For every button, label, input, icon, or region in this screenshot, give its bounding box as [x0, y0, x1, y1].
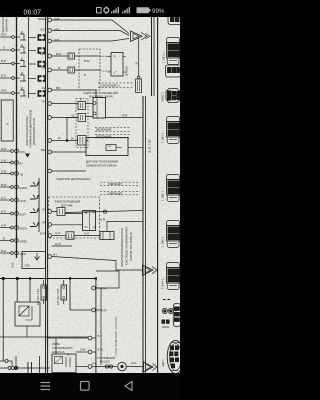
wire color labels top-left: [1, 33, 7, 93]
page border vertical: [157, 17, 159, 373]
svg-text:MREL: MREL: [38, 17, 46, 21]
driver hook symbols: [30, 181, 39, 227]
wire W-B from sensor to ECU border: [106, 117, 144, 119]
connector C7 pin pair: [162, 300, 173, 328]
ECU pin circle FP: [48, 68, 52, 72]
svg-text:W-B: W-B: [54, 27, 60, 31]
fuse EFI no.2: [61, 280, 67, 304]
wire row B-O EGR: [0, 212, 18, 216]
wire NE-: [52, 151, 86, 153]
ECU pin circle MREL: [48, 18, 52, 22]
svg-text:⊗ 2C TB2: ⊗ 2C TB2: [148, 139, 152, 153]
svg-text:ELR: ELR: [1, 33, 6, 37]
svg-text:FP: FP: [42, 66, 46, 70]
svg-text:EVP: EVP: [40, 231, 46, 235]
dashed option box: [79, 49, 100, 90]
connector view C6: [167, 263, 180, 290]
wire stubs bus to blobs: [29, 38, 37, 94]
off-page arrow 1: [131, 31, 151, 42]
svg-text:G-R: G-R: [100, 217, 105, 221]
wire W-B row 2: [52, 31, 129, 36]
terminal T5: [20, 87, 26, 96]
connector view C4: [167, 175, 180, 202]
connector view C7 oval: [173, 304, 180, 327]
connector view C2b octagon: [166, 89, 180, 103]
inline connector blobs x36-46 top group: [38, 34, 46, 97]
ECU pin circle NE-: [48, 150, 52, 154]
resistor box THEO: [108, 53, 127, 77]
wire B row: [52, 69, 68, 71]
svg-text:D-R: D-R: [102, 308, 107, 312]
svg-text:+B: +B: [20, 173, 24, 177]
connector blob 4: [38, 75, 46, 82]
wire W-B row 3: [52, 39, 129, 42]
ECU right border line B (upper section): [153, 17, 155, 96]
svg-text:ТОПЛИВНЫЙ НАСОС: ТОПЛИВНЫЙ НАСОС: [114, 316, 118, 355]
svg-text:ЭЛЕКТРОПНЕВМОКЛАПАН: ЭЛЕКТРОПНЕВМОКЛАПАН: [120, 228, 124, 267]
wire row O: [0, 49, 20, 52]
wire: left bus vertical: [16, 17, 18, 258]
scanned diagram paper: [0, 17, 180, 374]
solenoid valve box: [100, 232, 114, 240]
svg-text:OX: OX: [42, 207, 46, 211]
signal bars 2: [122, 12, 123, 14]
svg-text:G-B: G-B: [1, 158, 6, 162]
wire shield to sensor pins: [67, 104, 93, 141]
off-page arrow 2: [143, 265, 158, 276]
wire G-W row: [52, 245, 72, 247]
svg-text:НАСОСА: НАСОСА: [52, 350, 65, 354]
FPU down-arrow symbol: [25, 154, 30, 158]
svg-text:S-W: S-W: [80, 348, 86, 352]
svg-text:B: B: [58, 66, 60, 70]
fuel pump relay box: [52, 354, 76, 373]
svg-text:BR: BR: [56, 86, 60, 90]
svg-text:КОЛЕНЧАТОГО ВАЛА: КОЛЕНЧАТОГО ВАЛА: [86, 163, 117, 167]
svg-text:B-R: B-R: [92, 362, 97, 366]
wire relay top feed: [47, 337, 88, 339]
wire G-O left: [52, 235, 66, 237]
wire color labels mid-left: [1, 147, 7, 253]
wire G2 to shield box: [52, 103, 78, 105]
svg-text:G2: G2: [42, 99, 46, 103]
ECU pin circle E1: [48, 88, 52, 92]
svg-text:E1: E1: [42, 86, 46, 90]
ECU pin circle HT: [48, 223, 52, 227]
ECU pin circle KNK: [48, 169, 52, 173]
wire S-W: [76, 351, 88, 353]
ECU right border line A: [142, 96, 144, 373]
bottom-left stub wires: [0, 356, 50, 373]
nested elbow wires: [96, 271, 119, 365]
svg-text:B: B: [84, 73, 86, 77]
svg-text:[ЗЕЛЕНЫЙ]: [ЗЕЛЕНЫЙ]: [96, 128, 112, 132]
STA starter box: [22, 252, 46, 269]
ECU pin circle OX: [48, 210, 52, 214]
wire row G-B +B: [0, 172, 18, 176]
vertical from rail left 2: [16, 280, 18, 302]
svg-text:G3W: G3W: [20, 252, 27, 256]
knock sensor symbol: [103, 210, 106, 213]
connector circle B-B: [88, 365, 92, 369]
wire row B-W EGR4: [0, 185, 18, 189]
svg-text:W-B: W-B: [54, 38, 60, 42]
wire: main center bus line A: [45, 17, 47, 373]
svg-text:W: W: [67, 352, 70, 356]
back button: [125, 382, 132, 391]
svg-text:G: G: [80, 98, 82, 102]
vertical to fuse2 branch: [70, 280, 92, 310]
svg-text:B-O: B-O: [1, 249, 7, 253]
svg-text:B-R: B-R: [1, 59, 6, 63]
wire row B-W FPU: [0, 149, 18, 153]
home button: [81, 382, 90, 391]
svg-text:G-B: G-B: [1, 169, 6, 173]
svg-text:G-O: G-O: [84, 231, 90, 235]
connector circle B-Y: [88, 336, 92, 340]
connector circle D-R 1: [92, 286, 96, 290]
svg-text:НАСОС: НАСОС: [100, 360, 110, 364]
svg-text:MREL: MREL: [20, 240, 28, 244]
wire: inner vertical rail top: [28, 17, 30, 98]
wire W-B row 1: [52, 20, 129, 34]
ECU pin circle G2: [48, 102, 52, 106]
connector blob 2: [38, 47, 46, 54]
shield box B: [57, 208, 65, 216]
svg-text:G-R: G-R: [1, 223, 6, 227]
off-page arrow 3: [144, 362, 158, 372]
svg-text:ДАТЧИК: ДАТЧИК: [61, 203, 73, 207]
connector circle S-W: [88, 350, 92, 354]
svg-text:СИСТЕМЫ УЛАВЛИВАНИЯ: СИСТЕМЫ УЛАВЛИВАНИЯ: [125, 227, 129, 265]
svg-text:EFI №2 7,5A: EFI №2 7,5A: [56, 289, 60, 305]
ECU right border line A (upper section): [151, 17, 153, 96]
fuse EFI no.1: [41, 280, 47, 304]
wire OX to heater element: [52, 212, 83, 214]
wire W2 to crank box: [86, 140, 88, 142]
shield terminal box W2: [78, 136, 87, 146]
ECU pin circle STA: [48, 255, 52, 259]
svg-text:W: W: [72, 114, 75, 118]
ECU pin circle SDT: [48, 39, 52, 43]
svg-text:FPU: FPU: [20, 150, 26, 154]
svg-text:B-W: B-W: [1, 183, 7, 187]
signal bars 1: [111, 12, 112, 14]
svg-text:ПАРОВ ТОПЛИВА ⊗: ПАРОВ ТОПЛИВА ⊗: [129, 232, 133, 261]
ECU pin circle SCO: [48, 29, 52, 33]
svg-text:B-W: B-W: [84, 59, 90, 63]
wire E1: [52, 90, 96, 98]
wire NE+: [52, 140, 78, 142]
svg-text:W: W: [58, 136, 61, 140]
svg-text:1 1⊕6 1: 1 1⊕6 1: [161, 190, 165, 201]
wire B-B bottom: [76, 366, 88, 368]
connector blob 5: [38, 90, 46, 97]
ECU block box top-left: [1, 100, 13, 141]
wire: driver rail mid: [38, 178, 40, 232]
main power rail: [0, 278, 96, 280]
svg-text:B-W: B-W: [56, 52, 62, 56]
ECU pin circle NE+: [48, 139, 52, 143]
connector box below B wire: [136, 79, 142, 93]
svg-text:N: N: [6, 123, 10, 125]
oxygen sensor dashed enclosure: [49, 197, 100, 238]
svg-text:SDT: SDT: [40, 38, 46, 42]
wire B-W to terminal: [52, 55, 68, 57]
svg-text:06:07: 06:07: [24, 10, 42, 17]
wire row G-R EGR1: [0, 226, 18, 230]
connector view C2 (double): [167, 38, 180, 65]
notification icon 1: [97, 8, 102, 13]
svg-text:ЗАЖИГАН.: ЗАЖИГАН.: [5, 18, 9, 32]
svg-text:T ⊕P4 1: T ⊕P4 1: [161, 278, 165, 289]
svg-text:HT: HT: [42, 220, 46, 224]
vertical to relay: [29, 280, 31, 302]
terminal T2: [20, 44, 26, 53]
battery icon: [137, 7, 150, 13]
phone screen background: [0, 0, 180, 400]
ECU pin circle G2-: [48, 116, 52, 120]
scan speckle overlay: [0, 17, 180, 374]
terminal T4: [20, 72, 26, 81]
inline connector pair: [105, 365, 108, 368]
oxygen sensor body: [83, 211, 96, 231]
svg-text:D-R: D-R: [102, 286, 107, 290]
svg-text:B-Y: B-Y: [98, 334, 103, 338]
svg-text:W-R: W-R: [131, 361, 137, 365]
junction dots on rail: [2, 277, 97, 280]
terminal T3: [20, 58, 26, 67]
svg-text:COR: COR: [20, 199, 26, 203]
bottom wire to pump: [92, 362, 144, 371]
svg-text:G-Y: G-Y: [1, 196, 6, 200]
svg-text:[ ЗЕЛЕНЫЙ ] х: [ ЗЕЛЕНЫЙ ] х: [101, 84, 121, 88]
svg-text:1 1⊕1 1: 1 1⊕1 1: [162, 52, 166, 63]
wire row ELR: [0, 36, 20, 39]
svg-text:B-O: B-O: [1, 209, 7, 213]
wire row B-O G3W: [0, 251, 18, 255]
wire below relay: [0, 336, 88, 338]
svg-text:B: B: [3, 236, 5, 240]
ECU pin name labels: [20, 150, 28, 256]
svg-text:W-B: W-B: [122, 113, 128, 117]
wire G2- to W shield box: [52, 117, 78, 119]
wire B vertical down to connector: [137, 38, 140, 79]
svg-text:B: B: [134, 62, 138, 64]
hook H2: [30, 194, 39, 199]
terminal box FPR: [68, 53, 75, 59]
nav bar background: [0, 373, 180, 400]
svg-text:РАСПРЕД. ВАЛА: РАСПРЕД. ВАЛА: [89, 95, 113, 99]
green bracket rows 2: [95, 128, 131, 132]
vertical from rail left 1: [2, 280, 4, 361]
wire G-R up from solenoid: [107, 222, 143, 232]
svg-text:SCO: SCO: [40, 27, 47, 31]
connector view C5: [167, 221, 180, 248]
svg-text:[ЧЕРНЫЙ]: [ЧЕРНЫЙ]: [108, 191, 122, 195]
svg-text:EGR1: EGR1: [20, 227, 28, 231]
black bracket rows: [100, 182, 140, 185]
wire G-O right: [74, 235, 100, 237]
svg-text:EFI №1 7,5A: EFI №1 7,5A: [36, 289, 40, 305]
inline connector box EVP: [66, 232, 74, 240]
notification icon 2 (gear): [104, 8, 109, 13]
connector blob 1: [38, 34, 46, 41]
svg-text:1 1⊕3 1: 1 1⊕3 1: [161, 132, 165, 143]
terminal T1: [20, 31, 26, 40]
wire row B-O: [0, 77, 20, 80]
shield terminal box W: [78, 114, 86, 122]
svg-text:99%: 99%: [152, 8, 165, 15]
svg-text:FPR: FPR: [40, 52, 46, 56]
ECU pin circle EVP: [48, 234, 52, 238]
terminal symbols column x20-27 (ignition coil pins): [20, 31, 26, 96]
wire FP to sensor: [75, 69, 101, 71]
svg-text:EGR4: EGR4: [20, 186, 28, 190]
crankshaft sensor body: [86, 138, 143, 156]
wire: main center bus line B: [47, 17, 49, 373]
svg-text:1 1⊕6 1: 1 1⊕6 1: [161, 236, 165, 247]
svg-text:[ЧЕРНЫЙ]: [ЧЕРНЫЙ]: [108, 182, 122, 186]
svg-text:B+: B+: [20, 162, 24, 166]
vertical main right drop: [95, 280, 97, 373]
svg-text:G-W: G-W: [55, 242, 61, 246]
svg-text:B-W: B-W: [1, 147, 7, 151]
connector view C8 round multi-pin: [167, 341, 184, 374]
wire row B MREL: [0, 239, 18, 243]
connector blob 3: [38, 61, 46, 68]
EFI main relay box: [15, 302, 40, 326]
hook H1: [30, 181, 39, 186]
wire KNK row: [52, 170, 86, 172]
shield dashed enclosure: [76, 99, 88, 148]
svg-text:①ДАТЧИК ДЕТОНАЦИИ: ①ДАТЧИК ДЕТОНАЦИИ: [56, 177, 90, 181]
fuel pump symbol: [118, 362, 127, 371]
knock wire to ECU: [65, 211, 143, 213]
hook H3: [30, 208, 39, 213]
svg-text:⊗THEO: ⊗THEO: [125, 65, 129, 76]
connector circle D-R 2: [92, 308, 96, 312]
camshaft sensor body: [93, 98, 106, 119]
svg-text:ДВИГАТЕЛЕМ 3S-FE: ДВИГАТЕЛЕМ 3S-FE: [32, 118, 36, 145]
svg-text:EGR: EGR: [20, 213, 26, 217]
svg-text:S-W: S-W: [98, 348, 104, 352]
shield terminal box G: [78, 102, 86, 110]
ECU pin circle FPR: [48, 54, 52, 58]
connector color bracket row (green): [98, 83, 134, 88]
svg-text:W: W: [71, 137, 74, 141]
wire into dashed box: [75, 55, 101, 57]
terminal box FP: [68, 67, 75, 73]
menu button: [41, 383, 51, 390]
connector view C1 (top, cut off): [168, 17, 180, 25]
wire W-R to arrow: [126, 366, 143, 368]
wire row G-Y COR: [0, 198, 18, 202]
hook H4: [30, 222, 39, 227]
ECU right border line B: [145, 96, 147, 373]
wire row G-B B+: [0, 161, 18, 165]
wire B-Y from STA: [52, 257, 143, 271]
svg-text:B-O: B-O: [1, 74, 7, 78]
svg-text:W-B: W-B: [1, 89, 7, 93]
connector view C3: [167, 117, 180, 144]
svg-text:W-B: W-B: [11, 262, 15, 268]
wire row W-B: [0, 92, 20, 95]
svg-text:B-Y: B-Y: [53, 252, 58, 256]
svg-text:STA: STA: [25, 264, 30, 268]
wire HT: [52, 224, 83, 226]
svg-text:W-B: W-B: [54, 17, 60, 21]
bus with circles bottom: [47, 336, 96, 368]
status bar background: [0, 0, 180, 17]
svg-text:1⊕R2 1: 1⊕R2 1: [161, 92, 165, 102]
svg-text:G-O: G-O: [55, 231, 61, 235]
junction dot NE: [66, 140, 68, 142]
svg-text:NE: NE: [41, 148, 45, 152]
svg-text:c⊕9 1: c⊕9 1: [161, 359, 165, 367]
wire row B-R: [0, 62, 20, 65]
